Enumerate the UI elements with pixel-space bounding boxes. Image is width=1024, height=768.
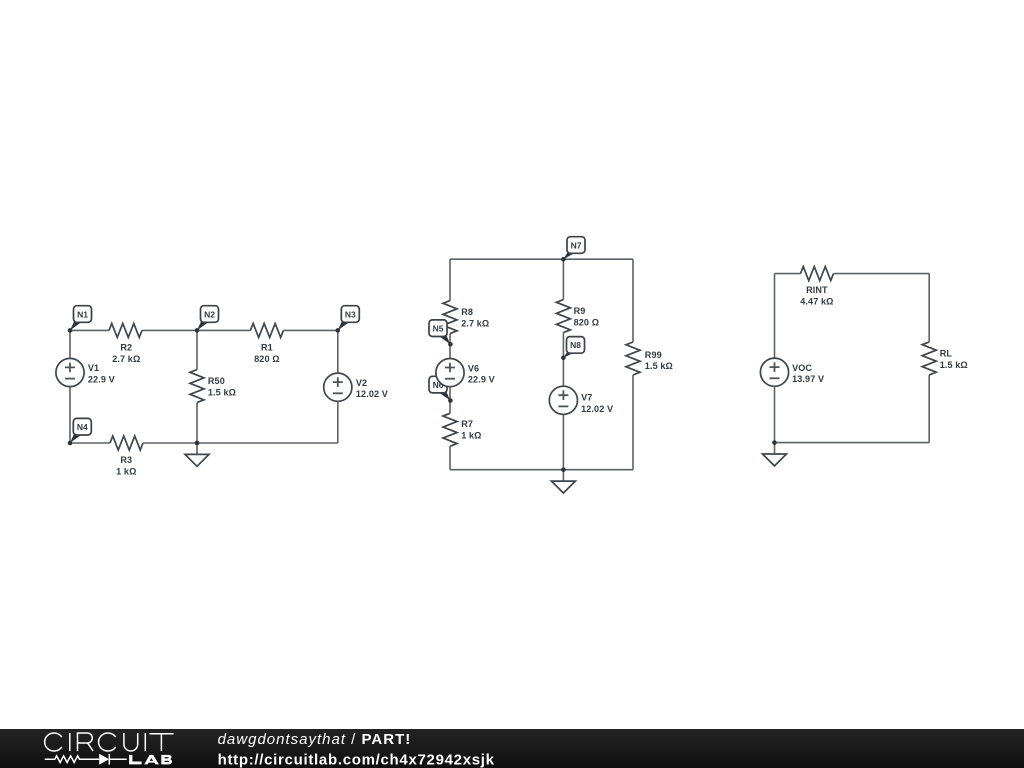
CircuitLab logo: resistor-diode line [45,754,127,765]
svg-text:N7: N7 [571,240,582,250]
node label N3 [338,306,360,331]
label V2 value [356,378,388,399]
wire [562,414,564,469]
resistor R3 [110,436,143,450]
voltage source VOC [760,358,788,386]
node N5 junction [448,342,453,347]
label R99 value [645,350,673,371]
svg-text:VOC: VOC [792,363,812,373]
wire [449,334,451,359]
wire [449,446,451,469]
junction at ground (right circuit) [772,440,777,445]
svg-text:1 kΩ: 1 kΩ [461,430,481,440]
svg-text:http://circuitlab.com/ch4x7294: http://circuitlab.com/ch4x72942xsjk [218,751,495,768]
label R1 value [254,343,280,364]
label RINT value [800,285,833,306]
node label N5 [429,320,450,344]
svg-text:N3: N3 [345,309,356,319]
CircuitLab logo: CIRCUIT word [45,733,174,751]
svg-text:22.9 V: 22.9 V [88,375,115,385]
svg-text:820 Ω: 820 Ω [254,354,280,364]
voltage source V6 [436,359,464,387]
node N2 junction [195,328,200,333]
svg-text:1 kΩ: 1 kΩ [116,467,136,477]
resistor R50 [190,370,204,403]
svg-text:V1: V1 [88,363,99,373]
wire [337,401,339,443]
wire [196,403,198,443]
svg-text:22.9 V: 22.9 V [468,375,495,385]
svg-text:12.02 V: 12.02 V [356,389,388,399]
wire [834,273,930,275]
node label N1 [70,306,92,331]
node label N8 [563,337,584,358]
svg-text:2.7 kΩ: 2.7 kΩ [461,319,489,329]
label V7 value [581,393,613,414]
svg-text:R7: R7 [461,419,473,429]
svg-text:V6: V6 [468,363,479,373]
svg-text:N8: N8 [570,340,581,350]
wire [775,442,930,444]
resistor R2 [109,323,142,337]
label R2 value [112,343,140,364]
node N1 junction [68,328,73,333]
CircuitLab logo: LAB word [129,755,172,765]
junction at ground (middle circuit) [561,467,566,472]
label R9 value [574,306,600,327]
svg-text:dawgdontsaythat / PART!: dawgdontsaythat / PART! [218,731,412,748]
resistor R99 [626,342,640,375]
wire [450,469,633,471]
voltage source V2 [324,373,352,401]
svg-text:4.47 kΩ: 4.47 kΩ [800,297,833,307]
node label N4 [70,418,91,443]
wire [632,375,634,470]
wire [143,442,338,444]
wire [774,386,776,442]
node label N7 [563,237,585,260]
svg-text:V2: V2 [356,378,367,388]
wire [928,274,930,342]
ground (left circuit) [185,443,209,466]
label R3 value [116,455,136,476]
svg-text:R1: R1 [261,343,273,353]
svg-text:R9: R9 [574,306,586,316]
svg-text:N1: N1 [77,309,88,319]
label V6 value [468,363,495,384]
label RL value [940,349,968,370]
label R50 value [208,376,236,397]
wire [562,333,564,387]
wire [632,259,634,342]
svg-text:1.5 kΩ: 1.5 kΩ [208,387,236,397]
wire [69,387,71,443]
wire [196,330,198,369]
svg-text:R8: R8 [461,307,473,317]
node label N6 [429,376,450,400]
svg-text:13.97 V: 13.97 V [792,374,824,384]
svg-text:820 Ω: 820 Ω [574,318,600,328]
svg-text:1.5 kΩ: 1.5 kΩ [940,360,968,370]
wire [70,442,110,444]
wire [450,258,633,260]
svg-text:N2: N2 [204,309,215,319]
node N6 junction [448,398,453,403]
wire [337,330,339,373]
label V1 value [88,363,115,384]
resistor RINT [801,267,834,281]
wire [562,259,564,299]
label R8 value [461,307,489,328]
svg-text:R2: R2 [120,343,132,353]
voltage source V1 [56,358,84,386]
wire [70,329,109,331]
ground (right circuit) [763,443,787,466]
svg-text:N5: N5 [433,324,444,334]
junction at ground (left circuit) [195,441,200,446]
wire [774,274,776,359]
wire [142,329,250,331]
node N7 junction [561,257,566,262]
voltage source V7 [549,386,577,414]
wire [69,330,71,358]
resistor R8 [443,301,457,334]
node N4 junction [68,441,73,446]
wire [449,259,451,300]
svg-text:R50: R50 [208,376,225,386]
resistor R1 [250,323,283,337]
svg-text:RINT: RINT [806,285,828,295]
wire [775,273,801,275]
resistor R7 [443,413,457,446]
ground (middle circuit) [551,470,575,493]
wire [283,329,337,331]
svg-text:N4: N4 [77,422,88,432]
resistor RL [922,342,936,375]
footer attribution bar [0,729,1024,768]
resistor R9 [556,300,570,333]
wire [449,387,451,414]
node N3 junction [336,328,341,333]
svg-text:R3: R3 [120,455,132,465]
label R7 value [461,419,481,440]
svg-text:2.7 kΩ: 2.7 kΩ [112,354,140,364]
svg-text:1.5 kΩ: 1.5 kΩ [645,361,673,371]
label VOC value [792,363,824,384]
node label N2 [197,306,219,331]
node N8 junction [561,356,566,361]
svg-text:R99: R99 [645,350,662,360]
svg-text:V7: V7 [581,393,592,403]
svg-text:12.02 V: 12.02 V [581,404,613,414]
wire [928,375,930,443]
svg-text:RL: RL [940,349,953,359]
